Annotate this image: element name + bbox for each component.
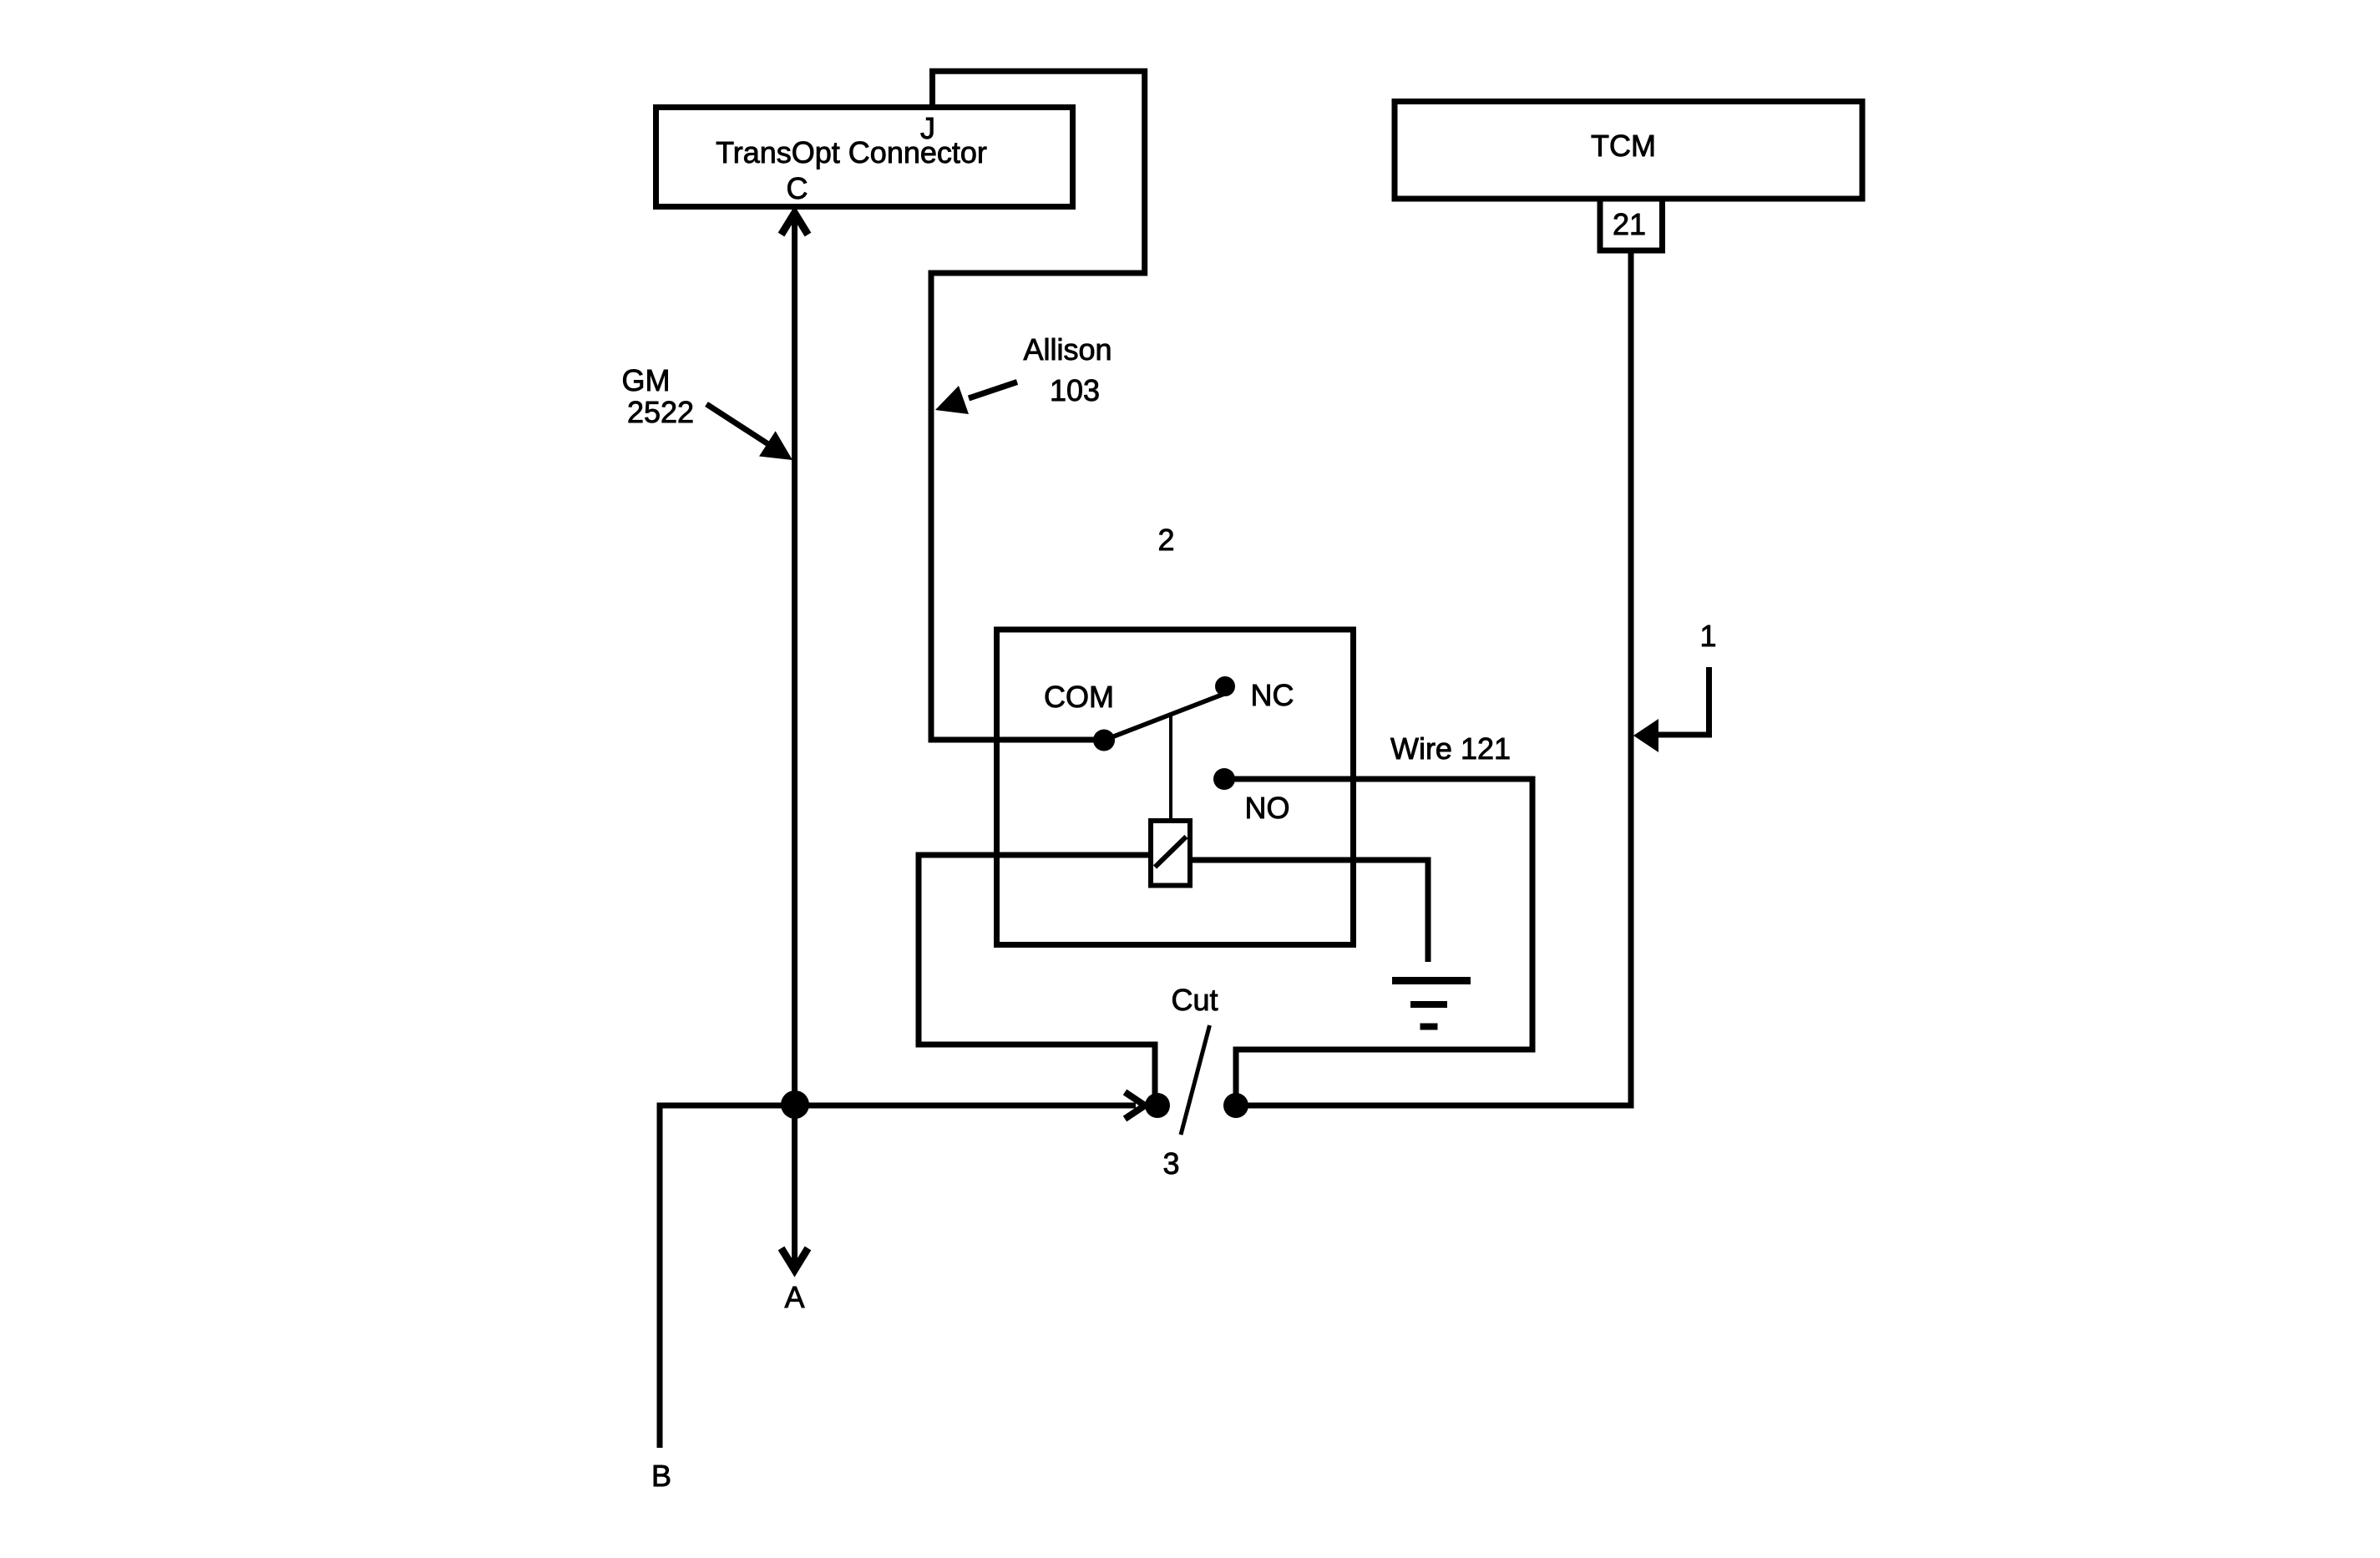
NC node dot xyxy=(1215,676,1235,696)
relay armature link xyxy=(1169,715,1172,821)
wire 1 leader xyxy=(1657,667,1709,735)
wire: coil left terminal to cut switch left xyxy=(919,855,1155,1105)
svg-text:B: B xyxy=(651,1459,671,1493)
COM node dot xyxy=(1093,730,1115,751)
cut slash xyxy=(1181,1025,1210,1135)
wire: GM 2522 vertical (pin C to node A) xyxy=(792,211,798,1266)
connector box: TransOpt Connector xyxy=(656,108,1073,207)
svg-text:3: 3 xyxy=(1162,1146,1179,1181)
NO node dot xyxy=(1213,768,1235,790)
ground bar 1 xyxy=(1392,977,1471,984)
wire: Allison 103 hook from pin J to relay COM xyxy=(931,71,1145,740)
svg-text:J: J xyxy=(920,111,935,145)
coil slash xyxy=(1155,837,1187,868)
wire: node B branch and bottom bus xyxy=(660,1105,1136,1448)
svg-text:TCM: TCM xyxy=(1591,129,1656,163)
wire: NO / Wire 121 to cut switch right xyxy=(1224,779,1532,1105)
GM 2522 leader line xyxy=(706,404,774,448)
GM 2522 arrowhead xyxy=(759,431,792,460)
arrowhead up at pin C xyxy=(782,213,808,235)
svg-text:103: 103 xyxy=(1050,373,1100,407)
svg-text:TransOpt Connector: TransOpt Connector xyxy=(716,135,987,169)
arrowhead down at node A xyxy=(782,1248,808,1270)
wire 1 arrowhead xyxy=(1633,719,1658,752)
relay switch blade xyxy=(1104,691,1232,741)
Allison 103 leader line xyxy=(969,382,1017,399)
svg-text:21: 21 xyxy=(1613,207,1646,241)
svg-text:NO: NO xyxy=(1245,791,1290,825)
svg-text:Allison: Allison xyxy=(1023,332,1112,367)
ground bar 3 xyxy=(1420,1024,1438,1030)
junction dot xyxy=(781,1090,809,1119)
svg-text:GM: GM xyxy=(622,363,671,397)
svg-text:2522: 2522 xyxy=(627,395,694,429)
svg-text:NC: NC xyxy=(1251,678,1294,712)
relay box xyxy=(997,630,1354,945)
cut switch left dot xyxy=(1145,1093,1170,1118)
svg-text:Cut: Cut xyxy=(1171,983,1218,1017)
svg-text:A: A xyxy=(784,1280,804,1314)
svg-text:2: 2 xyxy=(1157,523,1174,557)
TCM box xyxy=(1395,102,1862,200)
svg-text:Wire 121: Wire 121 xyxy=(1390,731,1511,766)
Allison 103 arrowhead xyxy=(935,386,969,414)
svg-text:C: C xyxy=(787,171,808,205)
ground bar 2 xyxy=(1410,1001,1447,1008)
arrowhead right at cut switch xyxy=(1125,1092,1145,1119)
relay coil box xyxy=(1151,821,1190,886)
wire: coil right terminal to ground xyxy=(1190,860,1428,962)
cut switch right dot xyxy=(1223,1093,1248,1118)
svg-text:COM: COM xyxy=(1044,680,1114,714)
wire: cut switch right to TCM pin 21 xyxy=(1236,251,1631,1105)
svg-text:1: 1 xyxy=(1699,619,1716,653)
pin 21 box xyxy=(1600,199,1663,250)
